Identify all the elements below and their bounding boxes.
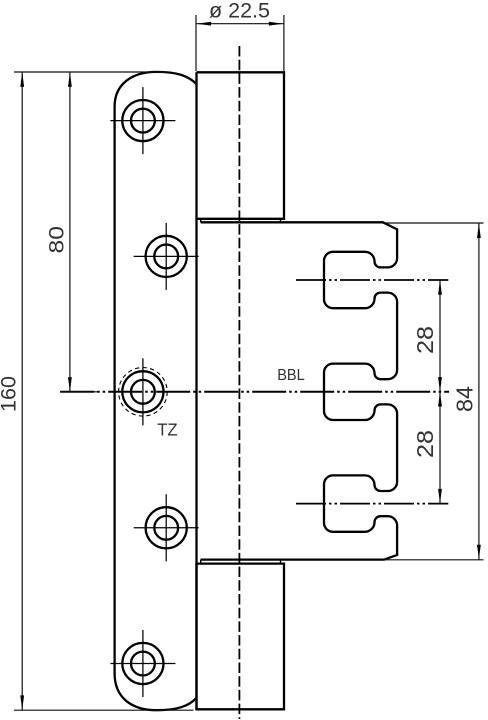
frame leaf comb outline [201, 222, 397, 559]
bottom knuckle barrel [197, 564, 285, 710]
slot 3 centerline [296, 503, 448, 505]
screw hole at (142.9,663.5) [122, 643, 163, 684]
svg-text:28: 28 [412, 326, 438, 354]
TZ dashed circle [119, 368, 168, 417]
svg-text:84: 84 [452, 386, 478, 412]
dimension diameter 22.5 [195, 15, 197, 71]
screw hole at (142.9,391.8) [122, 371, 163, 412]
barrel vertical axis centerline [238, 46, 240, 719]
svg-text:160: 160 [0, 376, 21, 412]
hole crosshair [165, 494, 167, 561]
plate right edge / knuckle left edge [195, 72, 197, 709]
hole crosshair [165, 223, 167, 290]
hole crosshair [142, 630, 144, 697]
screw hole at (166.2,256.4) [146, 236, 187, 277]
dimension 80 [69, 72, 71, 392]
hole crosshair [142, 358, 144, 425]
svg-text:80: 80 [44, 226, 68, 254]
screw hole at (166.2,527.8) [146, 507, 187, 548]
screw hole at (142.9,120.6) [122, 100, 163, 141]
hinge leaf plate outline [115, 72, 197, 710]
dimension 28 lower [438, 392, 442, 407]
hole crosshair [142, 87, 144, 154]
dimension 160 overall height [14, 71, 166, 73]
dimension 84 comb height [384, 222, 484, 224]
svg-text:28: 28 [412, 430, 438, 458]
top knuckle barrel [197, 72, 285, 219]
knuckle end chamfer ticks bottom [200, 560, 202, 564]
BBL horizontal centerline [60, 391, 449, 393]
knuckle end chamfer ticks top [200, 219, 202, 223]
svg-text:ø 22.5: ø 22.5 [209, 0, 270, 23]
svg-text:BBL: BBL [277, 367, 305, 384]
dimension 28 upper [439, 280, 441, 504]
svg-text:TZ: TZ [157, 420, 178, 440]
slot 1 centerline [296, 279, 448, 281]
